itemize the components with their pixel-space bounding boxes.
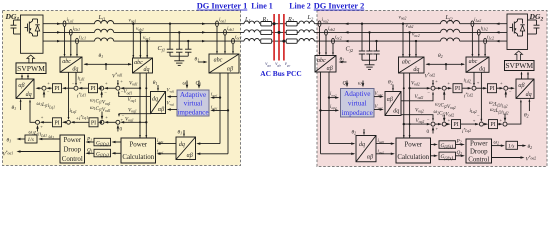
SVPWM gating block-arrow (DG1) [27,55,35,63]
iobeta2 into dq/alphabeta (power) DG2 [321,153,355,155]
P2 arrow into droop control DG2 [456,144,464,146]
DG Inverter 2 region background (pink dashed box) [317,11,547,167]
svg-text:ioq1: ioq1 [157,149,164,154]
Q1 arrow into droop control [87,152,94,154]
wire arrow [202,31,206,33]
summing junction current loop d-axis (coupling) [42,86,46,90]
inverter bridge box DG2 [507,14,528,50]
svg-text:+: + [436,126,439,131]
AC bus phase a (red) [273,14,275,61]
svg-text:−: − [509,90,512,95]
Vod2 measurement line down [409,73,411,138]
coupling feed w1Cf1 Voq1 [101,92,103,97]
theta1 stub into abc/alphabeta [198,61,206,63]
transform block abc/dq (inverter currents DG2) [466,57,489,72]
theta1 rail to transform blocks [85,63,132,65]
coupling feed w2Lf2 iLd2 from above [504,114,506,121]
svg-text:iod1: iod1 [157,139,164,144]
IGBT with antiparallel diode (DG1) [25,27,28,29]
wire arrow [202,40,206,42]
iLd2 riser into summing junction DG2 [473,72,475,84]
coupling feed w1Lf1 iLq1 [43,92,45,98]
svg-text:PI: PI [54,86,59,92]
iod2 arrow into power calculation DG2 [376,143,393,145]
ioalpha1 into dq/alphabeta (power) [198,143,221,145]
theta1 output arrow [18,138,25,140]
filter inductor Lf2 phase a [441,21,460,24]
w1 output to integrator [40,138,60,140]
svg-text:L2: L2 [307,14,314,21]
node voa1 [132,23,134,25]
sensor risers to abc/alphabeta (DG2) [319,27,321,55]
ground [178,56,180,61]
current sensor iLa2 [471,21,474,27]
coupling feed w2Cf2 Voq2 [443,92,445,100]
sensor risers to abc/alphabeta (DG1) [216,27,218,53]
phase a wire bus to DG2 [297,23,299,25]
svg-text:virtual: virtual [184,100,203,108]
node voc2 [415,40,417,42]
current sensor iLc1 [76,38,79,44]
Vod2 reference stub [432,80,434,85]
Vvq2 arrow into alphabeta/dq [374,109,382,111]
line inductor L2 phase c [299,38,315,41]
svg-text:αβ: αβ [18,83,24,89]
AC bus phase c (red) [283,14,285,61]
power calculation block DG1 [121,138,156,163]
low pass filter Gf2(s) for Q DG2 [431,155,437,157]
summing junction current q-axis reference [67,120,71,124]
adaptive virtual impedance block DG2 [341,89,375,118]
svg-text:vgc: vgc [285,62,291,67]
svg-text:Power: Power [470,140,488,147]
svg-text:+: + [448,118,451,123]
wire arrow [57,31,61,33]
svg-text:vga: vga [265,62,271,67]
alphabeta/dq return path q [30,101,35,123]
svg-text:−: − [47,90,50,95]
phase c wire bus to DG2 [297,40,299,42]
current sensor ioc1 [232,38,235,44]
svg-text:PI: PI [455,86,460,92]
svg-text:virtual: virtual [348,99,367,107]
PWM reference risers [21,75,23,79]
wire arrow [57,22,61,24]
filter inductor Lf1 phase b [95,29,114,32]
SVPWM block (DG2) [505,61,535,71]
bus junction phase c [282,40,285,43]
svg-text:Power: Power [404,142,422,149]
svg-text:dq: dq [72,66,78,72]
virtual impedance q correction into summing junction [119,114,151,116]
power droop control block DG1 [60,135,85,163]
wire arrow [202,22,206,24]
svg-text:SVPWM: SVPWM [505,61,533,70]
svg-text:+: + [499,118,502,123]
svg-text:dq: dq [144,67,150,73]
svg-text:−: − [427,90,430,95]
node voa2 [402,23,404,25]
svg-text:−: − [427,118,430,123]
summing junction voltage loop q (coupling) [100,120,104,124]
DC-link capacitor (DG2) [528,19,537,21]
svg-text:αβ: αβ [367,155,373,161]
iLd1 riser into summing junction [75,72,77,84]
svg-text:Calculation: Calculation [122,154,154,161]
svg-text:impedance: impedance [342,109,373,117]
filter inductor Lf2 phase c [441,38,460,41]
theta2 rail to transform blocks [427,63,465,65]
svg-text:−: − [477,113,480,118]
coupling feed w2Lf2 iLq2 [505,92,507,98]
svg-text:+: + [41,115,44,120]
phase a wire DG1 to bus [43,23,95,25]
svg-text:−: − [72,81,75,86]
summing junction voltage d-axis reference [116,86,120,90]
svg-text:+: + [435,79,438,84]
svg-text:−: − [469,81,472,86]
current sensor ioc2 [332,38,335,44]
wire arrow [496,40,500,42]
svg-text:ioα1: ioα1 [211,93,218,98]
current sensor iob1 [224,30,227,36]
adaptive virtual impedance block DG1 [177,90,209,116]
SVPWM gating block-arrow (DG2) [515,51,523,61]
svg-text:αβ: αβ [227,67,233,73]
current sensor ioa2 [318,21,321,27]
summing junction current d-axis reference DG2 [472,86,476,90]
svg-text:dq: dq [359,142,365,148]
line resistor R2 phase a [286,22,297,26]
svg-text:Line 2: Line 2 [289,2,311,11]
bus junction phase a [273,22,276,25]
Vod1 measurement line down [139,73,141,138]
svg-text:dq: dq [179,142,185,148]
line resistor R1 phase b [261,30,272,34]
svg-text:+: + [500,81,503,86]
transform block abc/alphabeta (output currents DG2) [315,56,336,73]
iobeta2 measurement line [320,72,322,154]
svg-text:αβ: αβ [387,97,393,103]
wire arrow [345,22,349,24]
transform block alphabeta/dq (modulation voltages DG2) [516,79,534,98]
wire arrow [496,31,500,33]
svg-text:AC Bus PCC: AC Bus PCC [260,69,301,78]
svg-text:dq: dq [393,109,399,115]
svg-text:Line 1: Line 1 [251,2,273,11]
iLq2 riser into summing junction DG2 [480,72,482,120]
zero reference stub DG2 [432,128,434,134]
svg-text:αβ: αβ [158,107,164,113]
svg-text:L1: L1 [244,16,251,23]
SVPWM block (DG1) [16,63,46,74]
Vod2 feedback arrow [410,87,430,89]
svg-text:+: + [447,81,450,86]
line resistor R2 phase c [286,39,297,43]
svg-text:ioβ2: ioβ2 [330,105,337,110]
line resistor R2 phase b [286,30,297,34]
coupling feed w1Cf1 Vod1 from above [101,112,103,119]
svg-text:abc: abc [402,59,411,65]
iobeta1 into dq/alphabeta (power) [198,153,229,155]
svg-text:Vvq2: Vvq2 [375,105,383,110]
power calculation block DG2 [396,138,431,163]
Vvq1 arrow into dq/alphabeta [168,109,177,111]
svg-text:Droop: Droop [63,146,81,153]
svg-text:abc: abc [317,58,326,64]
summing junction current d-axis reference [74,86,78,90]
svg-text:αβ: αβ [327,66,333,72]
low pass filter Gf1(s) for P [113,141,121,143]
svg-text:+: + [105,81,108,86]
svg-text:0: 0 [120,127,123,133]
theta1 stub into alphabeta/dq [20,100,22,110]
summing junction current loop d coupling DG2 [504,86,508,90]
svg-text:Vvd2: Vvd2 [375,92,383,97]
node voc1 [146,40,148,42]
PI controller voltage d-axis DG2 [453,84,462,93]
svg-text:PI: PI [54,120,59,126]
ioq1 arrow into power calculation [158,153,176,155]
svg-text:SVPWM: SVPWM [17,64,45,73]
svg-text:iod2: iod2 [378,139,385,144]
low pass filter Gf1(s) for Q [113,152,121,154]
svg-text:dq: dq [152,96,158,102]
PWM reference risers DG2 [521,73,523,79]
voltage-tap risers to abc/dq (DG1) [132,24,134,58]
ioq2 arrow into power calculation DG2 [376,153,393,155]
transform block dq/alphabeta (virtual impedance DG1) [151,92,166,114]
theta2 stub into alphabeta/dq [528,100,530,111]
line inductor L1 phase a [244,21,260,24]
ioalpha2 into dq/alphabeta (power) DG2 [329,143,354,145]
sensor risers to abc/dq (DG1) [64,27,66,56]
w2 output to integrator DG2 [492,145,504,147]
coupling feed w2Cf2 Vod2 from above [443,115,445,121]
line inductor L2 phase a [299,21,315,24]
PI controller current d-axis DG2 [488,84,497,93]
svg-text:−: − [122,113,125,118]
summing junction current loop q coupling DG2 [503,122,507,126]
iobeta1 measurement line [227,73,229,154]
svg-text:abc: abc [469,59,478,65]
wire arrow [345,31,349,33]
bus junction phase b [278,31,281,34]
summing junction voltage loop d coupling DG2 [442,86,446,90]
svg-text:Power: Power [129,142,147,149]
line inductor L2 phase b [299,30,315,33]
svg-text:Control: Control [62,156,83,163]
svg-text:ioq2: ioq2 [378,149,385,154]
wire arrow [345,40,349,42]
summing junction voltage q-axis reference [116,120,120,124]
transform block abc/dq (output voltages DG2) [399,57,425,73]
filter inductor Lf2 phase b [441,29,460,32]
svg-text:αβ: αβ [187,153,193,159]
current sensor iob2 [325,30,328,36]
AC bus phase b (red) [278,14,280,61]
svg-text:ioα2: ioα2 [330,92,337,97]
P1 arrow into droop control [87,141,94,143]
svg-text:Vvd1: Vvd1 [167,89,175,94]
current sensor iLa1 [63,21,66,27]
wire arrow [57,40,61,42]
transform block abc/alphabeta (output currents DG1) [209,54,239,73]
PI controller voltage q-axis DG1 [89,118,98,127]
Vod1 feedback arrow [122,87,140,89]
Vvd1 arrow into dq/alphabeta [168,96,177,98]
svg-text:Droop: Droop [470,148,488,155]
integrator 1/s block DG1 [25,135,37,143]
svg-text:DG Inverter 2: DG Inverter 2 [314,2,365,11]
virtual impedance q correction into summing junction DG2 [401,115,433,121]
modulation d into alphabeta/dq DG2 [508,87,513,89]
Q2 arrow into droop control DG2 [456,155,464,157]
transform block alphabeta/dq (modulation voltages DG1) [16,79,34,98]
w1 input stub into adaptive block [186,81,188,88]
line resistor R1 phase c [261,39,272,43]
ioalpha1 measurement line [219,73,221,144]
svg-text:impedance: impedance [177,108,208,116]
theta2 output arrow [518,145,525,147]
svg-text:PI: PI [489,86,494,92]
phase c wire DG1 to bus [43,40,95,42]
svg-text:dq: dq [526,92,532,98]
svg-text:Vvq1: Vvq1 [167,102,175,107]
svg-text:αβ: αβ [518,83,524,89]
Voq1 measurement line down [145,73,147,138]
filter inductor Lf1 phase c [95,38,114,41]
wire arrow [496,22,500,24]
svg-text:PI: PI [90,86,95,92]
svg-text:dq: dq [26,92,32,98]
transform block dq/alphabeta (output currents to dq, DG1) [176,137,196,160]
transform block alphabeta/dq (virtual impedance DG2) [385,92,401,116]
ioalpha2 measurement line [328,72,330,144]
summing junction current q-axis reference DG2 [479,122,483,126]
current sensor ioa1 [216,21,219,27]
Vvd2 arrow into alphabeta/dq [374,96,382,98]
svg-text:abc: abc [134,60,143,66]
svg-text:R2: R2 [287,16,295,23]
svg-text:+: + [477,80,480,85]
sensor risers to abc/dq (DG2) [471,27,473,56]
integrator 1/s block DG2 [506,141,518,149]
w2 input stub into adaptive block [362,81,364,86]
svg-text:+: + [79,80,82,85]
svg-text:ioβ1: ioβ1 [211,105,218,110]
summing junction voltage loop d (coupling) [100,86,104,90]
virtual impedance d correction into summing junction [119,92,150,97]
node vob2 [408,31,410,33]
low pass filter Gf2(s) for P DG2 [431,144,437,146]
svg-text:Adaptive: Adaptive [180,91,206,99]
virtual impedance d correction into summing junction DG2 [401,93,433,101]
phase b wire bus to DG2 [297,31,299,33]
summing junction current loop q-axis (coupling) [36,120,40,124]
svg-text:DG Inverter 1: DG Inverter 1 [197,2,248,11]
DC-link capacitor (DG1) [14,19,21,21]
DG Inverter 1 region background (yellow dashed box) [3,11,241,166]
line inductor L1 phase b [244,30,260,33]
IGBT with antiparallel diode (DG2) [510,27,513,29]
iod1 arrow into power calculation [158,143,176,145]
transform block abc/dq (inverter currents DG1) [60,57,82,72]
svg-text:Power: Power [63,137,81,144]
inverter bridge box DG1 [21,15,44,53]
Voq2 measurement line down [403,73,405,138]
svg-text:0: 0 [427,129,430,135]
line resistor R1 phase a [261,22,272,26]
svg-text:PI: PI [490,122,495,128]
PI controller voltage q-axis DG2 [452,120,461,129]
svg-text:R1: R1 [262,16,269,23]
svg-text:Control: Control [468,156,489,163]
svg-text:Adaptive: Adaptive [344,90,370,98]
node vob1 [139,31,141,33]
filter capacitor bank Cf1 [169,23,171,25]
voltage-tap risers to abc/dq (DG2) [402,24,404,57]
filter inductor Lf1 phase a [95,21,114,24]
transform block abc/dq (output voltages DG1) [133,58,153,73]
svg-text:dq: dq [479,66,485,72]
svg-text:abc: abc [214,58,223,64]
coupling feed w1Lf1 iLd1 [37,126,39,131]
phase b wire DG1 to bus [43,31,95,33]
Q2 input stub into adaptive block [346,81,348,86]
theta2 stub into block [392,85,394,91]
power droop control block DG2 [466,139,492,163]
summing junction voltage d-axis reference DG2 [431,86,435,90]
current sensor iLb1 [69,30,72,36]
PI controller current q-axis DG2 [489,120,498,129]
Voa2 reference output arrow [492,157,524,159]
ground [369,60,371,65]
svg-text:1/s: 1/s [28,137,34,143]
Voq1 feedback arrow [122,121,147,123]
summing junction voltage q-axis reference DG2 [431,122,435,126]
svg-text:1/s: 1/s [508,143,514,149]
current sensor iLc2 [484,38,487,44]
svg-text:+: + [120,79,123,84]
Vod1 reference stub [117,80,119,85]
summing junction voltage loop q coupling DG2 [442,122,446,126]
svg-text:dq: dq [413,67,419,73]
theta2 stub into abc/alphabeta [340,61,347,63]
svg-text:vgb: vgb [275,62,281,67]
svg-text:Calculation: Calculation [397,154,429,161]
Voa1 reference output arrow [18,151,60,153]
svg-text:+: + [40,124,43,129]
svg-text:+: + [473,118,476,123]
svg-text:abc: abc [62,59,71,65]
theta1 stub into block [183,130,185,136]
svg-text:+: + [47,81,50,86]
current sensor iLb2 [477,30,480,36]
PI controller current q-axis DG1 [53,118,62,127]
transform block dq/alphabeta (output currents to dq, DG2) [356,136,376,162]
iLq1 riser into summing junction [68,72,70,119]
svg-text:PI: PI [91,120,96,126]
theta1 stub into dq/alphabeta [157,85,159,90]
filter capacitor bank Cf2 [361,23,363,25]
Q1 input stub into adaptive block [198,81,200,88]
PI controller voltage d-axis DG1 [89,84,98,93]
svg-text:+: + [105,115,108,120]
svg-text:−: − [104,90,107,95]
zero reference stub [117,126,119,132]
Voq2 feedback arrow [404,123,430,125]
